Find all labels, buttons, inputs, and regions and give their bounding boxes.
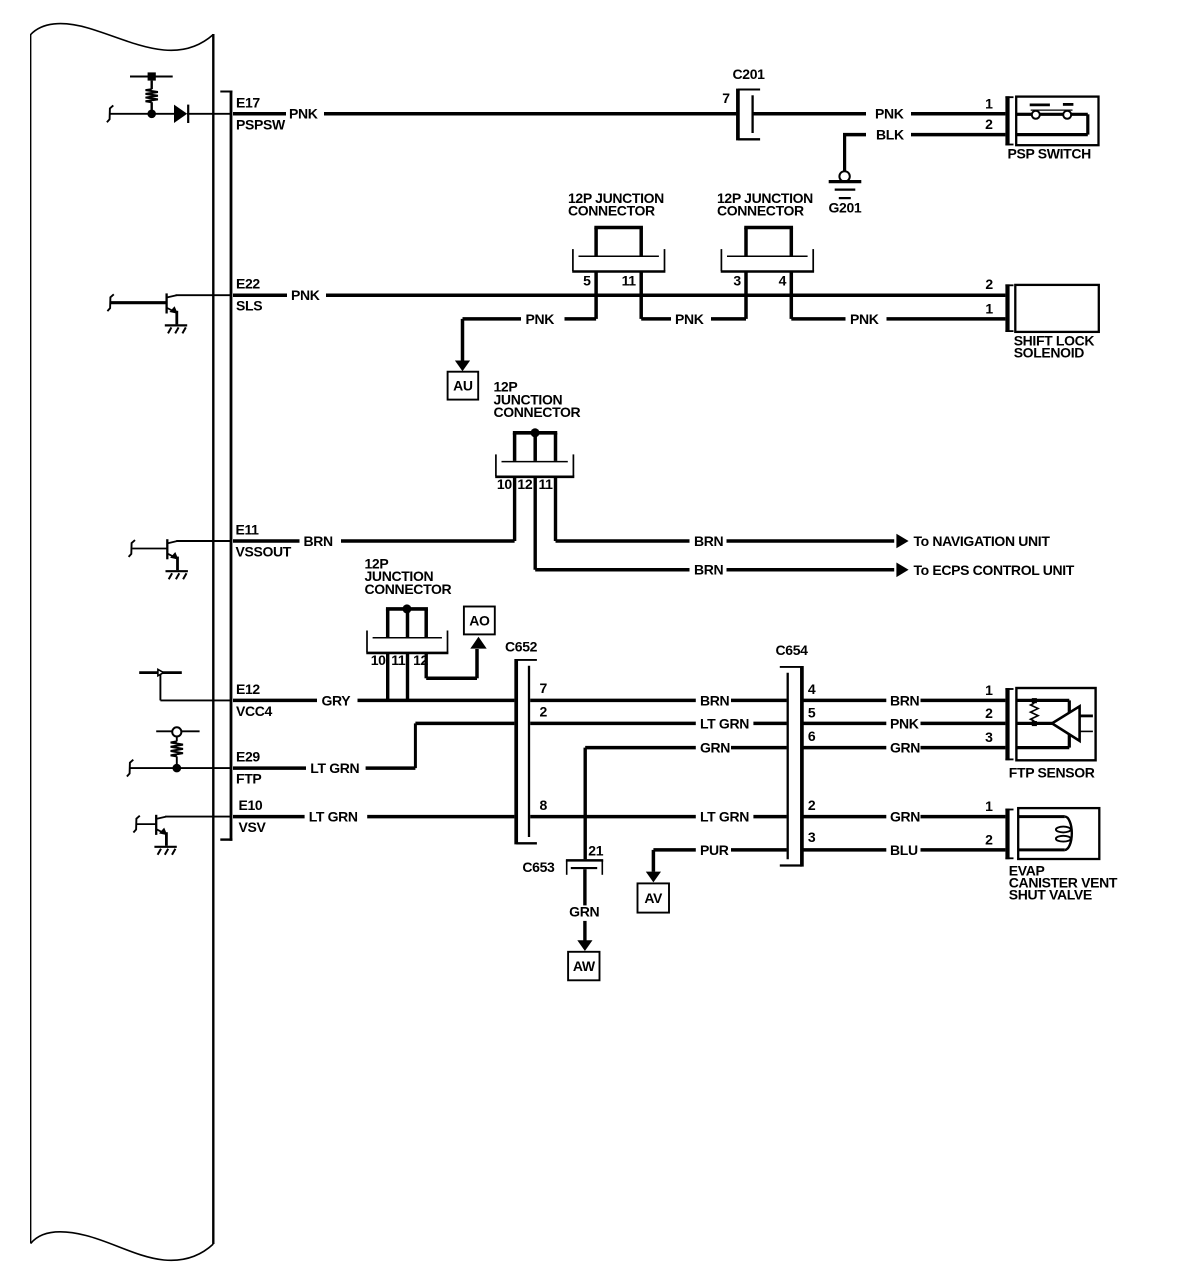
svg-text:CONNECTOR: CONNECTOR [717,202,804,218]
svg-text:BLU: BLU [890,842,918,858]
svg-text:E29: E29 [236,749,260,765]
svg-text:3: 3 [733,273,741,289]
svg-text:21: 21 [588,843,603,859]
svg-text:10: 10 [497,476,512,492]
svg-text:AU: AU [453,378,473,394]
svg-text:LT GRN: LT GRN [310,760,359,776]
svg-text:PSPSW: PSPSW [236,116,286,132]
svg-text:VSSOUT: VSSOUT [236,543,292,559]
svg-text:VSV: VSV [239,819,267,835]
svg-text:PSP SWITCH: PSP SWITCH [1008,145,1092,161]
svg-text:10: 10 [371,652,386,668]
svg-text:SLS: SLS [236,298,262,314]
svg-text:PNK: PNK [675,311,704,327]
svg-text:SOLENOID: SOLENOID [1014,344,1085,360]
svg-text:To ECPS CONTROL UNIT: To ECPS CONTROL UNIT [914,562,1075,578]
svg-text:2: 2 [985,116,993,132]
svg-text:GRN: GRN [569,904,599,920]
svg-text:VCC4: VCC4 [236,703,273,719]
svg-text:E22: E22 [236,276,260,292]
svg-text:LT GRN: LT GRN [700,715,749,731]
svg-text:AO: AO [469,612,490,628]
svg-text:5: 5 [583,273,591,289]
svg-text:C654: C654 [776,642,809,658]
svg-text:4: 4 [779,273,787,289]
svg-text:PNK: PNK [850,311,879,327]
svg-text:PNK: PNK [291,287,320,303]
svg-text:PNK: PNK [289,106,318,122]
svg-text:GRN: GRN [890,740,920,756]
svg-text:LT GRN: LT GRN [700,809,749,825]
svg-text:2: 2 [985,276,993,292]
svg-text:E11: E11 [236,521,260,537]
svg-text:CONNECTOR: CONNECTOR [494,404,581,420]
svg-text:8: 8 [540,797,548,813]
svg-text:E12: E12 [236,681,260,697]
svg-text:1: 1 [985,682,993,698]
svg-text:C652: C652 [505,639,538,655]
svg-text:LT GRN: LT GRN [309,809,358,825]
svg-text:E17: E17 [236,94,260,110]
svg-text:4: 4 [808,681,816,697]
svg-text:1: 1 [985,95,993,111]
svg-text:PUR: PUR [700,842,729,858]
svg-text:BLK: BLK [876,127,904,143]
svg-text:CONNECTOR: CONNECTOR [365,581,452,597]
svg-text:BRN: BRN [694,533,724,549]
svg-text:C653: C653 [522,859,555,875]
svg-text:2: 2 [540,703,548,719]
svg-text:GRY: GRY [322,692,352,708]
svg-text:PNK: PNK [526,311,555,327]
svg-text:1: 1 [985,301,993,317]
svg-text:2: 2 [985,831,993,847]
svg-text:6: 6 [808,728,816,744]
svg-text:BRN: BRN [700,692,730,708]
svg-text:E10: E10 [239,797,263,813]
svg-text:FTP SENSOR: FTP SENSOR [1009,765,1095,781]
svg-text:7: 7 [540,680,548,696]
svg-text:12: 12 [517,476,532,492]
svg-text:11: 11 [391,652,406,668]
svg-text:5: 5 [808,704,816,720]
svg-text:PNK: PNK [875,106,904,122]
svg-text:G201: G201 [829,199,862,215]
svg-text:BRN: BRN [694,562,724,578]
svg-text:PNK: PNK [890,715,919,731]
svg-text:2: 2 [808,797,816,813]
svg-text:BRN: BRN [890,692,920,708]
svg-text:3: 3 [808,829,816,845]
svg-text:3: 3 [985,729,993,745]
svg-text:11: 11 [538,476,553,492]
svg-text:11: 11 [622,273,637,289]
svg-text:C201: C201 [733,66,766,82]
svg-text:BRN: BRN [304,533,334,549]
svg-text:1: 1 [985,798,993,814]
svg-text:FTP: FTP [236,771,261,787]
svg-text:SHUT VALVE: SHUT VALVE [1009,887,1092,903]
svg-text:AV: AV [644,890,663,906]
svg-text:To NAVIGATION UNIT: To NAVIGATION UNIT [914,533,1051,549]
svg-text:AW: AW [573,958,596,974]
svg-text:CONNECTOR: CONNECTOR [568,202,655,218]
svg-text:GRN: GRN [890,809,920,825]
svg-text:2: 2 [985,705,993,721]
svg-text:GRN: GRN [700,740,730,756]
svg-text:7: 7 [722,90,730,106]
